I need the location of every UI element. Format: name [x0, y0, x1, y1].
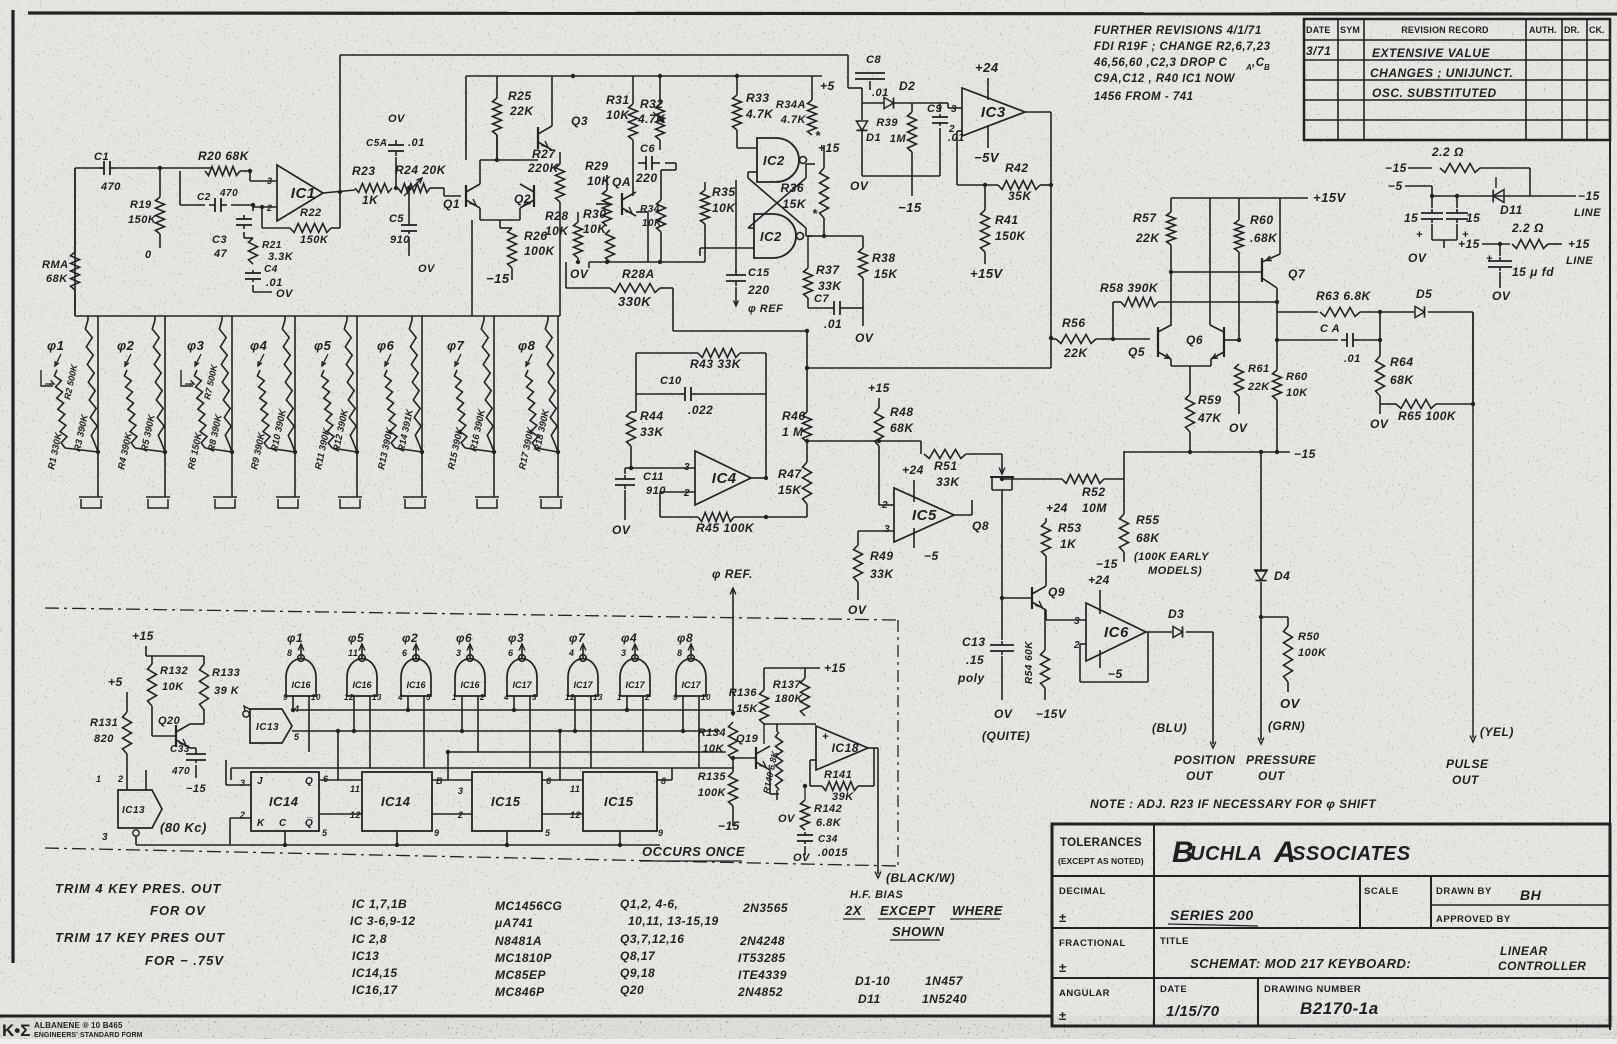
svg-text:LINE: LINE [1566, 255, 1593, 267]
capacitor C15 phi ref [735, 180, 737, 272]
resistor R38 [859, 248, 868, 278]
svg-text:R39: R39 [876, 117, 898, 129]
svg-text:330K: 330K [618, 294, 652, 309]
transistor Q7 [1261, 258, 1263, 282]
svg-text:IC16: IC16 [406, 680, 426, 690]
svg-text:φ8: φ8 [518, 338, 536, 353]
svg-text:+15V: +15V [970, 266, 1004, 281]
ground key 3 [213, 496, 237, 498]
-5 IC5 [913, 528, 915, 548]
svg-text:R27: R27 [532, 147, 556, 161]
key column wire 1 [97, 316, 99, 497]
resistor R46 [803, 412, 812, 442]
svg-text:IC 3-6,9-12: IC 3-6,9-12 [350, 914, 416, 928]
svg-text:OV: OV [612, 523, 631, 537]
svg-text:R46: R46 [782, 409, 806, 423]
svg-text:−15: −15 [1385, 161, 1407, 175]
svg-text:R58 390K: R58 390K [1100, 281, 1159, 295]
svg-text:IC1: IC1 [291, 185, 316, 202]
svg-text:R43 33K: R43 33K [690, 357, 742, 371]
IC4 output [751, 477, 766, 479]
svg-text:φ4: φ4 [250, 338, 268, 353]
IC18 output to HF bias [868, 747, 878, 749]
wire rail y368 [807, 367, 1051, 369]
svg-text:DR.: DR. [1564, 25, 1580, 35]
pulse out arrow [1470, 736, 1476, 742]
svg-text:100K: 100K [524, 244, 556, 258]
svg-text:C13: C13 [962, 635, 986, 649]
svg-text:100K: 100K [698, 787, 727, 799]
svg-text:R134: R134 [698, 727, 726, 739]
svg-text:IC5: IC5 [912, 507, 937, 524]
transistor Q4 [621, 193, 623, 215]
position out arrow [1210, 742, 1216, 748]
transistor Q3 [537, 127, 539, 149]
svg-text:R36: R36 [780, 181, 804, 195]
svg-text:R28: R28 [545, 209, 569, 223]
svg-text:DRAWN BY: DRAWN BY [1436, 886, 1492, 897]
svg-text:35K: 35K [1008, 189, 1032, 203]
svg-text:CHANGES ; UNIJUNCT.: CHANGES ; UNIJUNCT. [1370, 66, 1513, 80]
transistor Q1 [465, 185, 467, 207]
flip-flop IC14 [362, 772, 432, 831]
resistor R33 [736, 76, 738, 95]
diode D1 [856, 121, 867, 130]
svg-text:SCHEMAT: MOD 217 KEYBOARD: SCHEMAT: MOD 217 KEYBOARD: [1190, 956, 1411, 971]
transistor Q8 fet [966, 453, 1002, 455]
resistor R141 [822, 782, 858, 791]
svg-text:φ4: φ4 [621, 631, 637, 645]
resistor R64 [1376, 356, 1385, 396]
svg-text:2: 2 [1073, 640, 1080, 651]
resistor R17 390K [525, 370, 538, 448]
resistor R53 [1042, 522, 1051, 556]
svg-text:IC14,15: IC14,15 [352, 966, 398, 980]
svg-text:+5: +5 [820, 79, 835, 93]
svg-text:C9A,C12 , R40 IC1 NOW: C9A,C12 , R40 IC1 NOW [1094, 73, 1236, 85]
svg-text:46,56,60 ,C2,3 DROP C: 46,56,60 ,C2,3 DROP C [1093, 57, 1228, 69]
svg-text:10K: 10K [702, 743, 724, 755]
svg-text:Q6: Q6 [1186, 333, 1203, 347]
svg-text:D11: D11 [858, 992, 881, 1006]
svg-text:+24: +24 [975, 60, 999, 75]
resistor 2.2 ohm negative [1440, 164, 1480, 173]
transistor Q5 [1157, 327, 1159, 357]
svg-text:10K: 10K [545, 224, 569, 238]
svg-text:MC1810P: MC1810P [495, 951, 552, 965]
svg-text:+15: +15 [868, 381, 890, 395]
border frame bottom [0, 1015, 1052, 1018]
capacitor C5A [395, 140, 397, 145]
svg-text:10K: 10K [1286, 387, 1308, 399]
svg-text:2.2 Ω: 2.2 Ω [1511, 221, 1544, 235]
svg-text:3: 3 [456, 648, 462, 658]
svg-text:3.3K: 3.3K [268, 251, 294, 263]
svg-text:68K: 68K [1390, 373, 1414, 387]
svg-text:R23: R23 [352, 164, 376, 178]
resistor R58 [1121, 298, 1158, 307]
resistor R136 [760, 690, 769, 724]
svg-text:1: 1 [617, 693, 622, 702]
svg-text:R41: R41 [995, 213, 1019, 227]
svg-text:OSC. SUBSTITUTED: OSC. SUBSTITUTED [1372, 86, 1497, 100]
svg-text:9: 9 [658, 828, 664, 838]
svg-text:4: 4 [568, 648, 575, 658]
svg-text:OV: OV [418, 263, 436, 275]
svg-text:4: 4 [503, 693, 509, 702]
capacitor C7 [826, 307, 834, 309]
svg-text:2N4852: 2N4852 [737, 985, 783, 999]
svg-text:2X: 2X [844, 903, 863, 918]
capacitor 15uf A [1431, 196, 1433, 208]
svg-text:470: 470 [171, 766, 190, 777]
pressure out arrow [1258, 738, 1264, 744]
clock stub IC15 [619, 831, 621, 845]
svg-text:Q7: Q7 [1288, 267, 1306, 281]
resistor R131 [123, 712, 132, 754]
svg-text:Q3: Q3 [571, 114, 588, 128]
svg-text:1K: 1K [1060, 537, 1077, 551]
svg-text:Q2: Q2 [514, 192, 531, 206]
wire key φ7 to node [465, 448, 494, 452]
svg-text:φ1: φ1 [287, 631, 303, 645]
flip-flop IC15 [472, 772, 542, 831]
wire from Q section down [471, 220, 473, 316]
svg-text:470: 470 [219, 188, 238, 199]
svg-text:Q5: Q5 [1128, 345, 1145, 359]
svg-text:μA741: μA741 [494, 916, 533, 930]
svg-text:Q1,2, 4-6,: Q1,2, 4-6, [620, 897, 678, 911]
svg-text:R133: R133 [212, 667, 240, 679]
svg-text:ALBANENE ® 10 B465: ALBANENE ® 10 B465 [34, 1021, 123, 1030]
svg-text:6.8K: 6.8K [816, 817, 842, 829]
svg-text:φ REF: φ REF [748, 303, 783, 315]
wire Q7 to R63 [1277, 311, 1318, 313]
border frame right [1609, 55, 1611, 1030]
svg-text:OV: OV [994, 707, 1013, 721]
svg-text:R132: R132 [160, 665, 188, 677]
svg-text:3: 3 [102, 832, 108, 843]
svg-text:10: 10 [701, 693, 711, 702]
svg-text:+5: +5 [108, 675, 123, 689]
svg-text:10K: 10K [587, 174, 611, 188]
capacitor C33 [190, 747, 196, 749]
ground key 2 [146, 496, 170, 498]
resistor R16 390K [481, 320, 493, 444]
resistor R65 [1396, 400, 1436, 409]
capacitor C34 [804, 832, 806, 835]
NAND IC2 upper [757, 138, 799, 182]
node junction y441 [807, 440, 921, 442]
svg-text:6: 6 [402, 648, 408, 658]
svg-text:8: 8 [661, 776, 667, 786]
svg-text:φ7: φ7 [569, 631, 586, 645]
svg-text:ENGINEERS' STANDARD FORM: ENGINEERS' STANDARD FORM [34, 1032, 143, 1039]
wire key φ6 to node [395, 448, 422, 452]
svg-text:D1: D1 [866, 132, 881, 144]
resistor 2.2 ohm positive [1512, 240, 1548, 249]
svg-text:IC17: IC17 [681, 680, 701, 690]
svg-text:−15: −15 [1096, 557, 1118, 571]
wire -5 line [1432, 195, 1576, 197]
svg-text:R31: R31 [606, 93, 630, 107]
svg-text:IC 1,7,1B: IC 1,7,1B [352, 897, 407, 911]
svg-text:R63 6.8K: R63 6.8K [1316, 289, 1372, 303]
resistor R1 330K [54, 370, 67, 448]
wire key φ2 to node [135, 448, 165, 452]
svg-text:2: 2 [266, 203, 273, 213]
svg-text:15 μ fd: 15 μ fd [1512, 265, 1554, 279]
svg-text:R52: R52 [1082, 485, 1106, 499]
svg-text:68K: 68K [46, 273, 68, 285]
ground key 8 [539, 496, 563, 498]
svg-text:Q9: Q9 [1048, 585, 1065, 599]
svg-text:(EXCEPT AS NOTED): (EXCEPT AS NOTED) [1058, 856, 1144, 866]
ground key 6 [403, 496, 427, 498]
resistor R133 [200, 664, 209, 710]
svg-text:SSOCIATES: SSOCIATES [1292, 843, 1411, 865]
svg-text:φ2: φ2 [402, 631, 418, 645]
svg-text:IC16: IC16 [291, 680, 311, 690]
second rail [466, 75, 822, 77]
svg-text:R34A: R34A [776, 99, 806, 111]
svg-text:FRACTIONAL: FRACTIONAL [1059, 938, 1126, 949]
wire +5 node [848, 87, 862, 89]
svg-text:IT53285: IT53285 [738, 951, 786, 965]
svg-text:.0015: .0015 [818, 847, 848, 859]
resistor R137 [801, 678, 810, 716]
diode D4 [1260, 452, 1262, 570]
svg-text:OUT: OUT [1186, 769, 1214, 783]
svg-text:150K: 150K [128, 214, 157, 226]
diode D2 [862, 102, 884, 104]
wire R24 to Q1 base [430, 187, 444, 189]
svg-text:4: 4 [397, 693, 403, 702]
svg-text:φ REF.: φ REF. [712, 567, 753, 581]
0V below caps [1431, 224, 1433, 240]
svg-text:C8: C8 [866, 54, 881, 66]
svg-text:1 M: 1 M [782, 425, 804, 439]
svg-text:.022: .022 [688, 403, 713, 417]
svg-text:Q: Q [305, 776, 313, 787]
transistor Q2 [533, 185, 535, 207]
svg-text:(YEL): (YEL) [1480, 725, 1514, 739]
svg-text:OV: OV [1229, 421, 1248, 435]
ground key 7 [475, 496, 499, 498]
svg-text:11: 11 [350, 784, 360, 794]
svg-text:FDI R19F ; CHANGE R2,6,7,23: FDI R19F ; CHANGE R2,6,7,23 [1094, 41, 1271, 53]
resistor R5 390K [152, 320, 164, 444]
bus drop gap 2 [447, 752, 449, 780]
border frame top [28, 13, 1617, 14]
svg-text:OV: OV [778, 813, 796, 825]
svg-text:Q20: Q20 [620, 983, 644, 997]
svg-text:φ5: φ5 [314, 338, 332, 353]
ground 0V below C4 [252, 285, 254, 292]
resistor R28A [610, 284, 660, 293]
svg-text:POSITION: POSITION [1174, 753, 1235, 767]
svg-text:CONTROLLER: CONTROLLER [1498, 959, 1586, 973]
svg-text:IC16,17: IC16,17 [352, 983, 398, 997]
svg-text:IC2: IC2 [760, 229, 782, 244]
svg-text:(BLACK/W): (BLACK/W) [886, 871, 955, 885]
svg-text:C1: C1 [94, 151, 109, 163]
svg-text:B: B [436, 776, 443, 786]
svg-text:2: 2 [683, 488, 690, 499]
bus line 2 [292, 730, 720, 732]
svg-text:±: ± [1059, 1008, 1067, 1023]
resistor R6 150K [194, 370, 207, 448]
svg-text:+: + [1416, 229, 1423, 241]
svg-text:R20 68K: R20 68K [198, 149, 250, 163]
svg-text:D4: D4 [1274, 569, 1290, 583]
resistor R25 [496, 76, 498, 98]
svg-text:1K: 1K [362, 193, 379, 207]
svg-text:2: 2 [457, 810, 464, 820]
svg-text:15: 15 [1466, 211, 1480, 225]
svg-text:R49: R49 [870, 549, 894, 563]
svg-text:IC15: IC15 [491, 794, 521, 809]
svg-text:IC6: IC6 [1104, 624, 1129, 641]
svg-text:FOR − .75V: FOR − .75V [145, 953, 224, 968]
op-amp IC6 [1086, 603, 1146, 661]
resistor R34A [808, 100, 817, 135]
svg-text:10,11, 13-15,19: 10,11, 13-15,19 [628, 914, 719, 928]
svg-text:OV: OV [388, 113, 406, 125]
flip-flop IC14 [251, 772, 319, 831]
svg-text:φ2: φ2 [117, 338, 135, 353]
Q7 base line [1171, 271, 1262, 273]
svg-text:φ1: φ1 [47, 338, 64, 353]
resistor R45 [660, 491, 695, 493]
wire R20 to IC1 pin3 [240, 170, 250, 172]
rail to right lower [673, 330, 807, 332]
wire key φ5 to node [332, 448, 357, 452]
svg-text:R54 60K: R54 60K [1024, 641, 1035, 684]
svg-text:3: 3 [621, 648, 627, 658]
revision record table [1304, 19, 1610, 140]
svg-text:100K: 100K [1298, 647, 1327, 659]
svg-text:IC17: IC17 [512, 680, 532, 690]
svg-text:N8481A: N8481A [495, 934, 542, 948]
svg-text:*: * [812, 206, 818, 221]
svg-text:DATE: DATE [1160, 984, 1187, 995]
svg-text:D2: D2 [899, 79, 915, 93]
svg-text:R56: R56 [1062, 316, 1086, 330]
transistor Q9 [1031, 587, 1033, 609]
svg-text:D11: D11 [1500, 203, 1523, 217]
wire key φ3 to node [205, 448, 232, 452]
capacitor C11 [624, 475, 626, 479]
IC5 output to Q8 [954, 514, 972, 516]
svg-text:150K: 150K [995, 229, 1027, 243]
IC6 feedback loop [1080, 643, 1086, 645]
resistor R47 [803, 462, 812, 504]
svg-text:SCALE: SCALE [1364, 886, 1399, 897]
+15V rail [1171, 197, 1308, 199]
svg-text:1N5240: 1N5240 [922, 992, 967, 1006]
svg-text:+24: +24 [1046, 501, 1068, 515]
op-amp IC4 [695, 451, 751, 505]
svg-text:IC16: IC16 [460, 680, 480, 690]
diode D3 [1146, 631, 1172, 633]
resistor R20 [205, 167, 240, 176]
svg-text:poly: poly [957, 671, 985, 685]
svg-text:.01: .01 [1344, 353, 1361, 365]
clock stub IC15 [506, 831, 508, 845]
svg-text:IC18: IC18 [832, 741, 859, 755]
svg-text:−15: −15 [1294, 447, 1316, 461]
resistor R50 [1259, 615, 1263, 619]
resistor R39 [911, 103, 913, 112]
svg-text:OV: OV [276, 288, 294, 300]
svg-text:2: 2 [479, 693, 485, 702]
resistor R61 [1235, 364, 1244, 396]
IC2 lower output [808, 235, 824, 237]
resistor R42 [998, 181, 1040, 190]
svg-text:−15: −15 [186, 783, 207, 795]
svg-text:C5A: C5A [366, 138, 388, 149]
capacitor C6 [638, 162, 646, 164]
resistor R4 390K [124, 370, 137, 448]
wire key φ4 to node [268, 448, 295, 452]
svg-text:−5: −5 [1108, 667, 1123, 681]
svg-text:−15: −15 [718, 819, 740, 833]
svg-text:33K: 33K [818, 279, 842, 293]
resistor R37 [804, 268, 813, 298]
svg-text:APPROVED BY: APPROVED BY [1436, 914, 1511, 925]
resistor R60 [1238, 198, 1240, 220]
svg-text:MC846P: MC846P [495, 985, 545, 999]
resistor R59 [1186, 394, 1195, 432]
svg-text:−5V: −5V [974, 150, 1000, 165]
svg-text:(BLU): (BLU) [1152, 721, 1187, 735]
diode D5 [1415, 306, 1425, 317]
svg-text:.01: .01 [408, 137, 425, 149]
svg-text:D1-10: D1-10 [855, 974, 890, 988]
svg-text:OUT: OUT [1452, 773, 1480, 787]
top rail +5 [340, 54, 848, 56]
svg-text:SYM: SYM [1340, 25, 1360, 35]
resistor R32 [659, 76, 661, 104]
svg-text:22K: 22K [509, 104, 534, 118]
svg-text:Q19: Q19 [736, 733, 759, 745]
svg-text:R64: R64 [1390, 355, 1414, 369]
trim pot R2 500K [41, 370, 53, 386]
left loop wire [635, 353, 637, 412]
gate IC13 b [118, 790, 162, 828]
svg-text:6: 6 [546, 776, 552, 786]
clock stub IC14 [396, 831, 398, 845]
capacitor C4 [252, 270, 254, 273]
svg-text:C3: C3 [212, 234, 227, 246]
svg-text:2N3565: 2N3565 [742, 901, 788, 915]
svg-text:OUT: OUT [1258, 769, 1286, 783]
svg-text:−15V: −15V [1036, 707, 1067, 721]
svg-text:Q20: Q20 [158, 715, 181, 727]
svg-text:TRIM 17 KEY PRES OUT: TRIM 17 KEY PRES OUT [55, 930, 225, 945]
svg-text:TOLERANCES: TOLERANCES [1060, 837, 1142, 849]
resistor R36 [823, 154, 825, 168]
svg-text:IC 2,8: IC 2,8 [352, 932, 387, 946]
svg-text:3: 3 [951, 104, 957, 115]
resistor R132 [148, 664, 157, 706]
svg-text:−15: −15 [486, 271, 510, 286]
svg-text:R137: R137 [773, 679, 802, 691]
right loop wire [765, 353, 767, 478]
svg-text:2: 2 [644, 693, 650, 702]
resistor R30 [606, 230, 615, 262]
